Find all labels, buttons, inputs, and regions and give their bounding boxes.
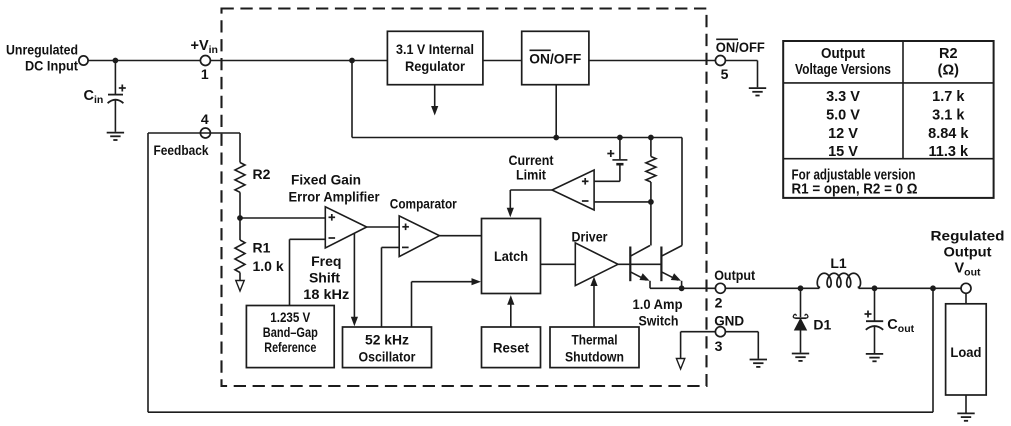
wire FB to EA+ xyxy=(240,217,325,219)
ground arrow (internal) xyxy=(676,359,684,370)
wire R1 bottom xyxy=(239,273,241,281)
wire Cin branch xyxy=(114,61,116,95)
node output feedback tap xyxy=(930,285,936,291)
svg-text:L1: L1 xyxy=(830,255,847,271)
transistor Q1 xyxy=(630,246,681,289)
amplifier driver xyxy=(575,243,618,286)
wire pin5 gnd stub xyxy=(757,61,759,88)
op-amp current limit xyxy=(552,170,594,210)
ground (Cout) xyxy=(866,354,883,361)
svg-text:1.7 k: 1.7 k xyxy=(932,89,965,105)
svg-text:Load: Load xyxy=(950,344,981,360)
svg-text:ON/OFF: ON/OFF xyxy=(716,39,765,55)
label Current Limit xyxy=(509,152,554,183)
label Cout xyxy=(887,317,914,335)
wire Vout to load xyxy=(965,293,967,304)
label Output (pin2) xyxy=(714,267,755,283)
node sense tap xyxy=(648,199,654,205)
node D1 tap xyxy=(798,285,804,291)
ground (ON/OFF) xyxy=(749,88,766,95)
wire internal gnd xyxy=(680,332,682,358)
label +Vin xyxy=(191,38,218,56)
wire sense res bottom xyxy=(650,182,652,246)
svg-text:Thermal: Thermal xyxy=(572,331,618,347)
wire ON/OFF down xyxy=(555,85,557,138)
svg-text:Regulated: Regulated xyxy=(931,227,1005,243)
label GND xyxy=(714,313,744,329)
svg-text:Voltage Versions: Voltage Versions xyxy=(795,62,891,78)
svg-text:Band–Gap: Band–Gap xyxy=(263,324,318,340)
ground arrow (R1) xyxy=(236,281,244,292)
svg-text:ON/OFF: ON/OFF xyxy=(529,50,581,66)
label + (Cin) xyxy=(119,85,126,92)
wire R2 top xyxy=(239,133,241,163)
wire regulator to ON/OFF xyxy=(483,60,522,62)
wire sense res top xyxy=(650,138,652,157)
wire feedback left xyxy=(148,132,240,134)
wire Cout xyxy=(874,288,876,320)
pin 5 ON/OFF xyxy=(715,56,725,66)
svg-text:Unregulated: Unregulated xyxy=(6,42,78,58)
svg-text:Feedback: Feedback xyxy=(154,142,209,158)
ground (pin3) xyxy=(750,360,767,367)
block ON/OFF xyxy=(522,31,589,84)
wire external gnd stub xyxy=(757,332,759,359)
node input junction xyxy=(113,58,119,64)
block Thermal Shutdown xyxy=(550,327,639,368)
wire thermal to driver xyxy=(590,277,597,328)
svg-text:3.3 V: 3.3 V xyxy=(826,89,860,105)
ground (D1) xyxy=(792,354,809,361)
label 1.0 Amp Switch xyxy=(633,296,683,328)
svg-text:12 V: 12 V xyxy=(828,126,858,142)
svg-text:1.0 Amp: 1.0 Amp xyxy=(633,296,683,312)
wire sense to comparator xyxy=(594,201,651,203)
svg-text:(Ω): (Ω) xyxy=(938,63,959,79)
block Load xyxy=(946,304,987,395)
svg-text:R2: R2 xyxy=(939,46,958,62)
wire reset to latch xyxy=(507,295,514,327)
svg-text:R1 = open, R2 = 0 Ω: R1 = open, R2 = 0 Ω xyxy=(792,182,918,198)
capacitor Cout xyxy=(866,321,883,353)
svg-text:Shutdown: Shutdown xyxy=(565,348,624,364)
node Cout tap xyxy=(872,285,878,291)
pin 2 Output xyxy=(715,283,725,293)
svg-text:3: 3 xyxy=(715,338,723,354)
battery cell (current limit ref) xyxy=(594,160,627,181)
block 52 kHz Oscillator xyxy=(343,327,432,368)
resistor R1 xyxy=(235,240,245,273)
block Latch xyxy=(482,219,541,294)
label 1.0 k xyxy=(253,258,284,274)
svg-text:3.1 V Internal: 3.1 V Internal xyxy=(396,41,474,57)
svg-text:R1: R1 xyxy=(253,240,271,256)
svg-text:Limit: Limit xyxy=(516,166,546,182)
label 2 xyxy=(715,294,723,310)
label 4 xyxy=(201,111,209,127)
resistor current sense xyxy=(646,157,656,183)
svg-text:Comparator: Comparator xyxy=(390,195,457,211)
wire comp out xyxy=(439,235,481,237)
op-amp error amplifier U1 xyxy=(325,207,366,248)
label Fixed Gain Error Amplifier xyxy=(289,171,381,204)
label Unregulated DC Input xyxy=(6,42,78,74)
wire output rail xyxy=(682,287,961,289)
ground (Load) xyxy=(957,413,974,420)
node Vin internal xyxy=(349,58,355,64)
svg-text:R2: R2 xyxy=(253,166,271,182)
svg-text:Latch: Latch xyxy=(494,248,528,264)
node switch emitter xyxy=(679,285,685,291)
label Comparator xyxy=(390,195,457,211)
label ON/OFF (pin5) xyxy=(716,39,765,55)
svg-text:3.1 k: 3.1 k xyxy=(932,107,965,123)
label R2 xyxy=(253,166,271,182)
label 3 xyxy=(715,338,723,354)
wire battery top xyxy=(619,138,621,160)
svg-text:4: 4 xyxy=(201,111,209,127)
wire gnd pin xyxy=(681,331,759,333)
svg-text:GND: GND xyxy=(714,313,744,329)
label 1 xyxy=(201,66,209,82)
wire bandgap to EA- xyxy=(290,239,326,305)
wire D1 xyxy=(800,288,802,317)
label + (Cout) xyxy=(865,311,872,318)
op-amp comparator xyxy=(399,216,439,257)
svg-text:Shift: Shift xyxy=(309,269,340,285)
capacitor Cin xyxy=(108,95,124,132)
label L1 xyxy=(830,255,847,271)
svg-text:5.0 V: 5.0 V xyxy=(826,107,860,123)
label Cin xyxy=(84,88,104,106)
wire feedback down-left rail xyxy=(148,133,933,412)
svg-text:8.84 k: 8.84 k xyxy=(928,126,969,142)
label Feedback xyxy=(154,142,209,158)
wire osc to comp- xyxy=(382,247,400,327)
wire freq shift xyxy=(351,233,358,326)
svg-text:Oscillator: Oscillator xyxy=(359,348,416,364)
IC boundary (dashed) xyxy=(222,9,707,387)
svg-text:Error Amplifier: Error Amplifier xyxy=(289,188,381,204)
svg-text:Regulator: Regulator xyxy=(405,58,466,74)
block 1.235V Band-Gap Reference xyxy=(246,306,334,368)
label Regulated Output Vout xyxy=(931,227,1005,278)
svg-text:DC Input: DC Input xyxy=(25,58,78,74)
node rail-ON/OFF xyxy=(553,135,559,141)
diode D1 (schottky) xyxy=(793,314,808,352)
svg-text:Fixed Gain: Fixed Gain xyxy=(291,171,361,187)
svg-text:Reference: Reference xyxy=(264,339,316,355)
label Driver xyxy=(572,228,608,244)
pin 3 GND xyxy=(715,327,725,337)
pin Vout terminal xyxy=(961,283,971,293)
label 5 xyxy=(721,66,729,82)
svg-text:Output: Output xyxy=(944,243,992,259)
label D1 xyxy=(813,316,831,332)
svg-text:15 V: 15 V xyxy=(828,144,858,160)
resistor R2 xyxy=(235,163,245,193)
inductor L1 xyxy=(817,273,860,288)
svg-text:Output: Output xyxy=(714,267,755,283)
wire R2 bottom xyxy=(239,192,241,240)
svg-text:D1: D1 xyxy=(813,316,831,332)
svg-text:Output: Output xyxy=(821,46,865,62)
svg-text:5: 5 xyxy=(721,66,729,82)
pin 1 +Vin xyxy=(200,56,210,66)
wire EA out xyxy=(367,226,400,228)
label R1 xyxy=(253,240,271,256)
svg-text:1.0 k: 1.0 k xyxy=(253,258,284,274)
svg-text:Reset: Reset xyxy=(493,339,529,355)
wire regulator bias arrow xyxy=(431,85,438,116)
svg-text:1: 1 xyxy=(201,66,209,82)
wire current limit out xyxy=(507,190,552,217)
svg-text:Switch: Switch xyxy=(639,312,679,328)
svg-text:1.235 V: 1.235 V xyxy=(270,309,311,325)
node rail-sense xyxy=(648,135,654,141)
svg-text:18 kHz: 18 kHz xyxy=(303,286,349,302)
wire osc to latch xyxy=(412,278,482,327)
label + (battery) xyxy=(607,150,614,157)
input terminal xyxy=(79,56,88,65)
svg-text:Driver: Driver xyxy=(572,228,608,244)
table output voltage versions xyxy=(783,41,993,198)
wire load gnd xyxy=(965,395,967,413)
svg-text:52 kHz: 52 kHz xyxy=(365,331,409,347)
label Freq Shift 18 kHz xyxy=(303,253,349,302)
block 3.1V Internal Regulator xyxy=(387,31,483,84)
ground (Cin) xyxy=(107,133,124,140)
block Reset xyxy=(482,327,541,368)
wire input rail xyxy=(88,60,387,62)
svg-text:Freq: Freq xyxy=(311,253,341,269)
node FB divider xyxy=(237,215,243,221)
wire internal supply rail xyxy=(352,61,682,246)
pin 4 Feedback xyxy=(200,128,210,138)
svg-text:11.3 k: 11.3 k xyxy=(929,144,969,160)
svg-text:2: 2 xyxy=(715,294,723,310)
transistor Q2 xyxy=(661,246,682,289)
wire ON/OFF to pin5 xyxy=(589,60,758,62)
wire latch to driver xyxy=(541,263,576,265)
wire driver to switch base xyxy=(618,263,661,265)
node rail-battery xyxy=(617,135,623,141)
